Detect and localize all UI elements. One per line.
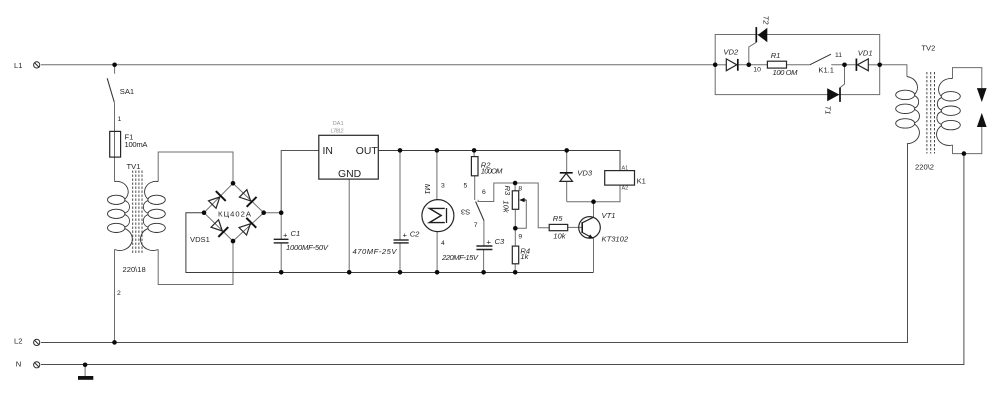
node TV2 secondary bottom [962, 151, 967, 156]
svg-text:3: 3 [441, 183, 445, 190]
wire DA1 GND lead [348, 179, 350, 272]
wire S3 pin 7 to C3 [483, 221, 485, 247]
wire N line to TV2 secondary junction [41, 154, 964, 365]
svg-text:КЦ402А: КЦ402А [218, 210, 252, 219]
node N ground [83, 363, 88, 368]
wire ground stub [84, 365, 86, 376]
svg-text:100OM: 100OM [481, 167, 503, 176]
svg-text:VDS1: VDS1 [190, 235, 210, 244]
capacitor C3 [476, 246, 492, 250]
node M1 ground [435, 270, 440, 275]
node bridge left [202, 210, 207, 215]
svg-text:T2: T2 [761, 16, 770, 26]
terminal L2 [34, 339, 40, 345]
svg-text:VD1: VD1 [858, 49, 873, 58]
svg-text:L1: L1 [14, 61, 22, 70]
transistor VT1 [579, 217, 601, 239]
capacitor C2 [394, 240, 409, 243]
svg-text:T1: T1 [823, 106, 832, 115]
svg-text:9: 9 [518, 234, 522, 241]
wire R2 top lead [473, 151, 475, 157]
diode VD3 [560, 173, 573, 182]
svg-text:10: 10 [753, 67, 761, 74]
wire bridge edge top-right [233, 183, 264, 212]
svg-text:DA1: DA1 [333, 121, 344, 127]
svg-text:220\18: 220\18 [123, 265, 146, 274]
wire TV2 secondary bottom [953, 127, 982, 154]
terminal L1 [34, 62, 40, 68]
wire bridge plus to C1 junction [264, 212, 282, 214]
svg-text:R1: R1 [771, 51, 781, 60]
potentiometer R3 [512, 191, 526, 210]
node C3 ground [481, 270, 486, 275]
wire R3 top stub [514, 183, 516, 191]
node VT1 collector [591, 199, 596, 204]
wire bridge edge top-left [204, 183, 233, 212]
wire SA1 upper stub [114, 65, 116, 74]
transformer TV1 primary winding [108, 181, 133, 250]
bridge rectifier VDS1 diode top-left [207, 191, 225, 209]
wire VT1 collector [593, 202, 595, 218]
wire R3 wiper to node 9 [515, 200, 526, 228]
svg-text:A2: A2 [622, 186, 629, 192]
svg-text:5: 5 [464, 183, 468, 190]
wire R4 top lead [514, 228, 516, 246]
wire VD3 branch [566, 151, 568, 173]
wire S3 pin 6 to node 8 [478, 183, 515, 202]
wire M1 bottom lead [436, 232, 438, 273]
wire TV1 primary bottom lead to L2 [114, 250, 116, 343]
svg-text:+: + [283, 231, 288, 240]
svg-text:OUT: OUT [356, 146, 379, 157]
node 10 [747, 63, 752, 68]
wire R2 to S3 pin 5 [474, 176, 476, 200]
wire C2 top lead [399, 151, 401, 241]
wire bridge edge bottom-right [233, 213, 264, 241]
svg-text:VD3: VD3 [577, 169, 593, 178]
switch S3 blade [476, 202, 484, 221]
wire K1.1 to VD1 [831, 64, 856, 66]
wire C1 top lead [280, 213, 282, 240]
wire main line box to TV2 [880, 65, 907, 77]
bridge rectifier VDS1 diode bottom-right [238, 218, 256, 236]
wire node 8 to R5 [515, 183, 549, 228]
node C2 ground [398, 270, 403, 275]
svg-text:100 OM: 100 OM [773, 68, 799, 77]
transformer TV2 primary winding [896, 77, 920, 144]
transformer TV1 secondary winding [141, 181, 166, 250]
node R4 ground [513, 270, 518, 275]
ground [78, 376, 93, 380]
wire C1 junction up to DA1 IN [281, 151, 319, 213]
wire TV2 secondary top to spark gap [953, 68, 982, 89]
spark gap electrode upper arrow [977, 88, 987, 102]
wire bridge edge bottom-left [204, 213, 233, 241]
svg-text:+: + [487, 238, 492, 247]
svg-text:7: 7 [474, 222, 478, 229]
svg-text:S3: S3 [461, 208, 470, 217]
thyristor T2 [756, 27, 767, 42]
fuse F1 [110, 131, 121, 157]
node M1 top [435, 148, 440, 153]
svg-text:4: 4 [441, 240, 445, 247]
svg-text:R5: R5 [553, 214, 563, 223]
wire C3 bottom lead [483, 250, 485, 273]
svg-text:C1: C1 [291, 229, 301, 238]
wire T1 gate [840, 65, 845, 88]
svg-text:220MF-15V: 220MF-15V [441, 253, 479, 262]
wire C1 bottom lead [280, 243, 282, 273]
wire VD3 bottom stub [566, 182, 568, 202]
svg-text:SA1: SA1 [120, 87, 134, 96]
wire +12V rail OUT to relay [378, 151, 620, 171]
svg-text:IN: IN [323, 146, 333, 157]
svg-text:11: 11 [835, 52, 842, 59]
svg-text:+: + [403, 231, 408, 240]
resistor R2 [471, 157, 478, 176]
bridge rectifier VDS1 diode top-right [238, 188, 256, 206]
svg-text:VT1: VT1 [602, 211, 616, 220]
svg-text:GND: GND [338, 169, 361, 180]
wire VD1 to box right [868, 64, 879, 66]
relay coil K1 [605, 171, 635, 186]
svg-text:KT3102: KT3102 [602, 234, 629, 243]
wire VD2 to node 10 [738, 64, 768, 66]
svg-text:2: 2 [117, 290, 121, 297]
node K1.1 right [842, 63, 847, 68]
svg-text:C2: C2 [410, 229, 420, 238]
transformer TV1 core [133, 171, 142, 255]
svg-text:1000MF-50V: 1000MF-50V [286, 243, 329, 252]
wire R4 bottom lead [514, 264, 516, 273]
resistor R1 [767, 61, 786, 68]
svg-text:1k: 1k [520, 252, 529, 261]
svg-text:10k: 10k [502, 200, 511, 213]
svg-text:1: 1 [118, 116, 122, 123]
svg-text:M1: M1 [423, 184, 432, 195]
svg-text:8: 8 [518, 185, 522, 192]
switch SA1 [107, 78, 114, 102]
transformer TV2 secondary winding [937, 78, 961, 145]
node R2 top [472, 148, 477, 153]
wire R1 to K1.1 [787, 64, 810, 66]
wire thyristor box left segment [715, 64, 726, 66]
diode VD2 [726, 59, 738, 71]
resistor R5 [549, 224, 568, 230]
voltage regulator DA1 box [319, 135, 379, 179]
svg-text:470MF-25V: 470MF-25V [353, 247, 398, 256]
terminal N [34, 362, 40, 368]
relay contact K1.1 [810, 54, 831, 65]
wire TV1 secondary bottom to bridge bottom [158, 241, 233, 284]
bridge rectifier VDS1 diode bottom-left [210, 219, 228, 237]
resistor R4 [512, 246, 518, 264]
wire bridge minus to ground rail [186, 213, 594, 273]
node 8 [513, 181, 518, 186]
wire C2 bottom lead [399, 243, 401, 273]
wire TV1 secondary top to bridge top [158, 152, 233, 183]
svg-text:10k: 10k [553, 232, 566, 241]
wire L1 top line [41, 64, 715, 66]
wire R5 to VT1 base [568, 226, 583, 228]
spark gap electrode lower arrow [977, 113, 987, 127]
svg-text:K1: K1 [637, 177, 646, 186]
svg-text:220\2: 220\2 [915, 162, 934, 171]
node L2 TV1 [112, 340, 117, 345]
svg-text:R3: R3 [503, 186, 512, 196]
svg-text:K1.1: K1.1 [818, 66, 834, 75]
node SA1 top [112, 63, 117, 68]
diode VD1 [856, 59, 868, 71]
svg-text:VD2: VD2 [723, 48, 739, 57]
wire T2 gate [749, 42, 757, 65]
capacitor C1 [274, 239, 289, 243]
svg-text:TV2: TV2 [921, 44, 935, 53]
node DA1 GND rail [347, 270, 352, 275]
node bridge top [231, 181, 236, 186]
thyristor block box [715, 35, 880, 95]
thyristor T1 [827, 88, 840, 102]
svg-text:L2: L2 [14, 337, 22, 346]
node C1 top junction [279, 210, 284, 215]
svg-text:A1: A1 [622, 165, 629, 171]
node C2 top [398, 148, 403, 153]
wire SA1 to fuse to TV1 [114, 103, 116, 182]
wire R3 bottom stub node 9 [514, 209, 516, 228]
node box left [713, 63, 718, 68]
svg-text:L7812: L7812 [331, 129, 344, 135]
svg-text:C3: C3 [495, 237, 505, 246]
svg-text:N: N [16, 359, 21, 368]
node bridge right [261, 210, 266, 215]
svg-text:6: 6 [482, 189, 486, 196]
node VD3 top [564, 148, 569, 153]
node C1 ground [279, 270, 284, 275]
transformer TV2 core [927, 72, 935, 154]
wire VT1 emitter to ground rail [593, 239, 595, 273]
node box right [877, 63, 882, 68]
wire relay bottom to VD3 bottom [567, 185, 620, 202]
wire L2 line to TV2 primary [41, 144, 908, 343]
node bridge bottom [231, 239, 236, 244]
wire M1 top lead [436, 151, 438, 200]
motor M1 [422, 200, 454, 232]
svg-text:TV1: TV1 [127, 162, 141, 171]
svg-text:100mA: 100mA [125, 140, 149, 149]
node 9 [513, 226, 518, 231]
